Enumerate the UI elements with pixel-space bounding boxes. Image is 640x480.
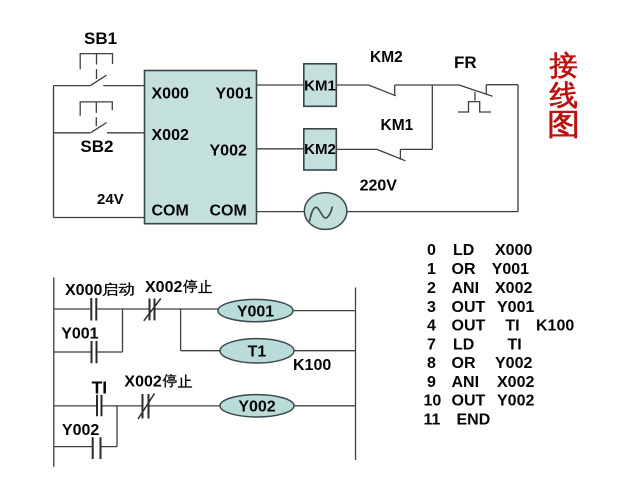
svg-text:COM: COM bbox=[210, 203, 247, 220]
coil Y001 ellipse bbox=[218, 299, 293, 321]
svg-text:Y002: Y002 bbox=[495, 355, 532, 372]
wire KM2 coil to KM1 NC contact bbox=[336, 148, 377, 150]
instruction list program bbox=[424, 242, 575, 428]
wire T1 branch vertical bbox=[180, 309, 182, 351]
svg-text:0: 0 bbox=[427, 242, 436, 259]
wire KM1 contact to junction bbox=[400, 148, 432, 150]
slash of X002 NC contact rung2 bbox=[138, 394, 155, 420]
wire ladder right rail bbox=[355, 288, 357, 461]
wire 24V row to PLC COM bbox=[54, 217, 145, 219]
svg-text:KM1: KM1 bbox=[304, 77, 336, 94]
wire KM2 contact to FR junction bbox=[395, 84, 459, 86]
coil T1 timer ellipse bbox=[220, 339, 294, 363]
svg-text:Y001: Y001 bbox=[61, 326, 98, 343]
contact X002 NC rung2 bbox=[143, 394, 149, 419]
contact KM2 normally-closed interlock bbox=[369, 85, 396, 96]
svg-text:4: 4 bbox=[427, 318, 436, 335]
wire T1 coil to right rail bbox=[294, 350, 356, 352]
AC source 220V bbox=[304, 193, 347, 230]
wire SB2 row to PLC X002 bbox=[54, 132, 145, 134]
svg-text:OR: OR bbox=[452, 261, 476, 278]
svg-text:TI: TI bbox=[508, 336, 522, 353]
coil KM2 box bbox=[304, 129, 337, 170]
wire Y001 coil to right rail bbox=[293, 310, 356, 312]
svg-text:X000: X000 bbox=[65, 282, 102, 299]
svg-text:2: 2 bbox=[427, 280, 436, 297]
svg-text:Y001: Y001 bbox=[216, 86, 253, 103]
svg-text:Y001: Y001 bbox=[492, 261, 529, 278]
svg-text:OUT: OUT bbox=[452, 318, 486, 335]
svg-text:220V: 220V bbox=[360, 178, 398, 195]
wire ladder left rail bbox=[53, 278, 55, 467]
wire junction vertical bbox=[431, 85, 433, 149]
wire PLC Y002 to KM2 coil bbox=[257, 148, 304, 150]
svg-text:X002: X002 bbox=[145, 279, 182, 296]
PLC box bbox=[145, 71, 257, 224]
svg-text:Y001: Y001 bbox=[237, 303, 274, 320]
wire rung 2 bbox=[54, 405, 220, 407]
contact X000 (start) bbox=[91, 298, 96, 321]
slash of X002 NC contact rung1 bbox=[144, 299, 161, 321]
wire Y002 coil to right rail bbox=[294, 405, 356, 407]
svg-text:ANI: ANI bbox=[452, 280, 480, 297]
svg-text:SB1: SB1 bbox=[84, 29, 117, 48]
label 停止 (stop) rung2 bbox=[163, 374, 177, 387]
pushbutton SB2 (stop button) bbox=[80, 102, 112, 133]
contact Y001 seal-in bbox=[92, 341, 97, 363]
svg-text:COM: COM bbox=[152, 203, 189, 220]
svg-text:LD: LD bbox=[453, 242, 474, 259]
wire rung1 branch vertical to Y001 contact bbox=[122, 309, 124, 352]
wire left 24V bus vertical bbox=[53, 86, 55, 218]
title 接线图 (wiring diagram) red vertical bbox=[550, 52, 577, 139]
coil Y002 ellipse bbox=[220, 395, 294, 417]
svg-text:END: END bbox=[457, 411, 491, 428]
label 停止 (stop) rung1 bbox=[183, 280, 197, 293]
svg-text:LD: LD bbox=[453, 336, 474, 353]
svg-text:T1: T1 bbox=[248, 344, 267, 361]
contact X002 NC rung1 bbox=[150, 299, 155, 321]
svg-text:KM2: KM2 bbox=[370, 49, 403, 66]
wire PLC COM to AC source bbox=[257, 211, 305, 213]
svg-text:KM1: KM1 bbox=[381, 117, 414, 134]
svg-text:X002: X002 bbox=[497, 374, 534, 391]
svg-text:3: 3 bbox=[427, 299, 436, 316]
svg-text:Y002: Y002 bbox=[210, 143, 247, 160]
svg-text:K100: K100 bbox=[293, 357, 331, 374]
wire AC source to right rail bbox=[347, 211, 518, 213]
wire SB1 row to PLC X000 bbox=[54, 85, 145, 87]
svg-text:TI: TI bbox=[92, 377, 108, 397]
svg-text:OUT: OUT bbox=[452, 299, 486, 316]
svg-text:Y001: Y001 bbox=[497, 299, 534, 316]
svg-text:X000: X000 bbox=[495, 242, 532, 259]
svg-text:FR: FR bbox=[454, 53, 477, 72]
svg-text:Y002: Y002 bbox=[238, 399, 275, 416]
svg-text:8: 8 bbox=[427, 355, 436, 372]
svg-text:K100: K100 bbox=[536, 318, 574, 335]
contact TI bbox=[97, 395, 102, 417]
svg-text:ANI: ANI bbox=[452, 374, 480, 391]
svg-text:7: 7 bbox=[427, 336, 436, 353]
wire FR to right rail bbox=[486, 84, 518, 86]
svg-text:OR: OR bbox=[452, 355, 476, 372]
svg-text:9: 9 bbox=[427, 374, 436, 391]
contact Y002 seal-in bbox=[93, 437, 101, 459]
contact KM1 normally-closed interlock bbox=[377, 149, 406, 160]
svg-text:24V: 24V bbox=[97, 191, 124, 208]
wire to T1 coil bbox=[181, 350, 220, 352]
wire rung2 branch vertical to Y002 contact bbox=[116, 406, 118, 447]
contact FR thermal overload relay bbox=[458, 85, 493, 112]
svg-text:SB2: SB2 bbox=[80, 137, 113, 156]
wire Y002 parallel branch bbox=[54, 446, 117, 448]
svg-text:10: 10 bbox=[424, 393, 442, 410]
wire PLC Y001 to KM1 coil bbox=[257, 84, 304, 86]
svg-text:TI: TI bbox=[505, 318, 519, 335]
svg-text:X002: X002 bbox=[124, 374, 161, 391]
svg-text:OUT: OUT bbox=[452, 393, 486, 410]
svg-text:X002: X002 bbox=[495, 280, 532, 297]
wire rung 1 bbox=[54, 308, 218, 310]
wire KM1 coil to KM2 NC contact bbox=[336, 84, 368, 86]
pushbutton SB1 (NO start button) bbox=[80, 54, 112, 86]
svg-text:X002: X002 bbox=[152, 127, 189, 144]
svg-text:11: 11 bbox=[424, 411, 441, 428]
wire Y001 parallel branch bbox=[54, 351, 123, 353]
svg-text:X000: X000 bbox=[152, 86, 189, 103]
svg-text:1: 1 bbox=[427, 261, 436, 278]
svg-text:Y002: Y002 bbox=[497, 393, 534, 410]
wire right rail vertical bbox=[517, 85, 519, 212]
coil KM1 box bbox=[304, 64, 337, 107]
svg-text:Y002: Y002 bbox=[62, 422, 99, 439]
label 启动 (start) bbox=[103, 283, 118, 296]
svg-text:KM2: KM2 bbox=[304, 141, 336, 158]
